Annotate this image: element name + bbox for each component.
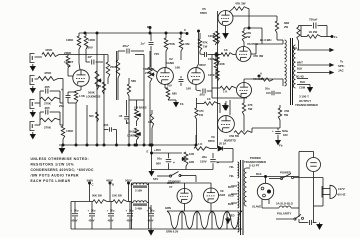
svg-text:560: 560 <box>89 114 94 118</box>
svg-text:30u: 30u <box>110 209 115 213</box>
svg-text:75V: 75V <box>167 84 172 88</box>
svg-text:+: + <box>88 209 90 213</box>
svg-text:450V: 450V <box>89 219 95 223</box>
svg-text:30u: 30u <box>74 209 79 213</box>
svg-text:3 40H: 3 40H <box>135 207 142 211</box>
svg-text:SPK.: SPK. <box>338 64 345 68</box>
svg-text:100K: 100K <box>88 38 96 42</box>
svg-text:50u: 50u <box>157 157 162 161</box>
svg-text:.1u*: .1u* <box>140 42 146 46</box>
svg-text:To: To <box>340 60 344 64</box>
svg-text:1.5K: 1.5K <box>79 94 85 98</box>
svg-text:Fs: Fs <box>334 35 338 39</box>
svg-text:.005: .005 <box>44 106 50 110</box>
svg-text:OUTPUT: OUTPUT <box>299 99 311 103</box>
svg-text:1.5M: 1.5M <box>183 42 190 46</box>
svg-text:YEL: YEL <box>229 174 234 178</box>
svg-text:WHT: WHT <box>297 61 303 65</box>
svg-text:47K 3W: 47K 3W <box>235 2 246 6</box>
svg-text:54V: 54V <box>153 177 158 181</box>
svg-text:1 K: 1 K <box>198 142 202 146</box>
svg-text:YEL: YEL <box>229 165 234 169</box>
svg-text:100K: 100K <box>208 57 215 61</box>
svg-text:+: + <box>217 161 219 165</box>
svg-text:2W: 2W <box>246 35 251 39</box>
svg-text:10K: 10K <box>175 66 180 70</box>
svg-text:6550: 6550 <box>200 11 207 15</box>
svg-text:270K: 270K <box>168 42 176 46</box>
svg-text:270K: 270K <box>44 102 52 106</box>
svg-text:A: A <box>260 72 262 76</box>
svg-text:+: + <box>107 209 109 213</box>
svg-text:+: + <box>272 129 274 133</box>
svg-text:68Ω: 68Ω <box>284 21 290 25</box>
svg-text:2W: 2W <box>284 25 289 29</box>
svg-text:.05: .05 <box>119 114 123 118</box>
svg-text:.005: .005 <box>44 85 50 89</box>
svg-text:.005: .005 <box>103 123 109 127</box>
svg-text:6AN8: 6AN8 <box>166 61 174 65</box>
svg-text:TRANSFORMER: TRANSFORMER <box>295 103 319 107</box>
svg-text:GRN 6.3V: GRN 6.3V <box>166 230 179 234</box>
svg-text:56K: 56K <box>131 79 136 83</box>
svg-text:100K: 100K <box>208 73 215 77</box>
svg-text:B: B <box>112 183 114 187</box>
svg-text:POWER: POWER <box>280 171 291 175</box>
svg-text:YEL: YEL <box>293 46 299 50</box>
svg-text:100K: 100K <box>66 129 74 133</box>
svg-text:150V: 150V <box>200 160 207 164</box>
svg-text:V7: V7 <box>169 185 173 189</box>
svg-text:.02: .02 <box>126 121 130 125</box>
svg-text:450V: 450V <box>72 219 78 223</box>
svg-text:+35V: +35V <box>154 148 161 152</box>
svg-text:.05u*: .05u* <box>122 44 130 48</box>
svg-text:500K: 500K <box>88 91 95 95</box>
svg-text:POLARITY: POLARITY <box>277 212 291 216</box>
svg-text:90u: 90u <box>202 155 207 159</box>
svg-text:BLK: BLK <box>297 67 302 71</box>
svg-text:C: C <box>92 183 94 187</box>
svg-text:500u: 500u <box>282 129 289 133</box>
svg-text:1W: 1W <box>203 45 208 49</box>
svg-text:SLAVE: SLAVE <box>252 205 261 209</box>
svg-text:S-12 PT: S-12 PT <box>249 164 260 168</box>
svg-text:470K: 470K <box>44 71 52 75</box>
svg-text:25u: 25u <box>59 104 64 108</box>
svg-text:47K 3W: 47K 3W <box>253 54 264 58</box>
svg-text:72V: 72V <box>154 52 159 56</box>
svg-text:.02*: .02* <box>87 55 93 59</box>
svg-text:100K: 100K <box>208 34 215 38</box>
svg-text:RESISTORS 1/2W 10%: RESISTORS 1/2W 10% <box>31 163 75 167</box>
svg-text:18V: 18V <box>283 133 288 137</box>
svg-text:20 3A: 20 3A <box>219 142 226 146</box>
svg-text:RED: RED <box>229 214 235 218</box>
svg-text:UNLESS OTHERWISE NOTED:: UNLESS OTHERWISE NOTED: <box>31 157 90 161</box>
svg-text:5A SLO-BLO: 5A SLO-BLO <box>276 202 294 206</box>
svg-text:/8W POTS AUDIO TAPER: /8W POTS AUDIO TAPER <box>31 173 80 177</box>
svg-text:350V: 350V <box>199 63 206 67</box>
svg-text:450V: 450V <box>108 219 114 223</box>
svg-text:Fb: Fb <box>180 102 184 106</box>
svg-text:+: + <box>126 209 128 213</box>
svg-text:JAC: JAC <box>338 69 344 73</box>
svg-text:8Ω 4Ω: 8Ω 4Ω <box>296 75 304 79</box>
svg-text:CONDENSERS 400VDC; *600VDC: CONDENSERS 400VDC; *600VDC <box>31 168 94 172</box>
svg-text:BLK: BLK <box>300 80 305 84</box>
svg-text:5AR4: 5AR4 <box>218 193 226 197</box>
svg-text:COM: COM <box>299 86 305 90</box>
svg-text:+: + <box>61 88 63 92</box>
svg-text:3 10H: 3 10H <box>135 189 142 193</box>
svg-text:6550: 6550 <box>208 139 215 143</box>
svg-text:47Ω: 47Ω <box>284 109 290 113</box>
svg-text:+: + <box>71 209 73 213</box>
svg-text:750uF: 750uF <box>309 18 318 22</box>
svg-text:270K: 270K <box>44 126 52 130</box>
svg-text:20u: 20u <box>265 87 270 91</box>
svg-text:56K: 56K <box>96 84 101 88</box>
svg-text:680: 680 <box>172 92 177 96</box>
svg-text:5W: 5W <box>248 107 253 111</box>
svg-text:100K: 100K <box>66 38 74 42</box>
svg-text:18R: 18R <box>189 160 194 164</box>
svg-text:.05u: .05u <box>199 93 205 97</box>
svg-text:50K 2W: 50K 2W <box>92 194 102 198</box>
svg-text:470K: 470K <box>45 48 53 52</box>
svg-text:LOUDNESS: LOUDNESS <box>86 95 101 99</box>
svg-text:60 HZ: 60 HZ <box>338 193 346 197</box>
svg-text:EACH POTS LINEAR: EACH POTS LINEAR <box>31 179 71 183</box>
svg-text:+: + <box>173 161 175 165</box>
svg-text:117V: 117V <box>338 187 345 191</box>
svg-text:80V: 80V <box>156 162 161 166</box>
svg-text:GRN: GRN <box>165 206 171 210</box>
svg-text:1K 2W: 1K 2W <box>309 30 318 34</box>
svg-text:BLK: BLK <box>256 172 262 176</box>
svg-text:47Ω 5W: 47Ω 5W <box>229 134 239 138</box>
svg-text:100K: 100K <box>218 62 225 66</box>
svg-text:16V: 16V <box>186 87 191 91</box>
svg-text:15K 2W: 15K 2W <box>112 194 122 198</box>
svg-text:Fb: Fb <box>279 144 283 148</box>
svg-text:5W: 5W <box>284 113 289 117</box>
svg-text:1 K: 1 K <box>223 90 227 94</box>
svg-text:200V: 200V <box>86 46 93 50</box>
svg-text:1W: 1W <box>199 113 204 117</box>
svg-text:1K: 1K <box>207 97 211 101</box>
svg-text:E: E <box>147 150 149 154</box>
svg-text:470: 470 <box>199 109 204 113</box>
svg-text:30u: 30u <box>91 209 96 213</box>
svg-text:1K: 1K <box>224 48 228 52</box>
svg-text:10R: 10R <box>189 152 194 156</box>
